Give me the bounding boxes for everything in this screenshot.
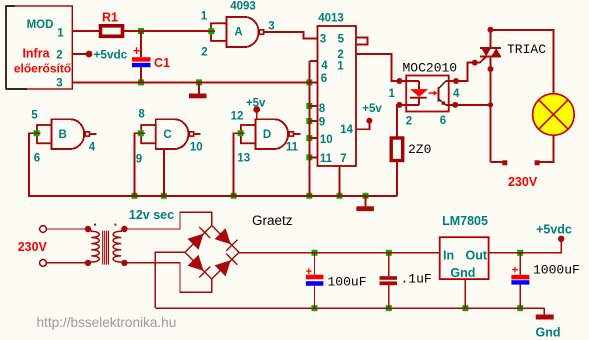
svg-text:D: D (263, 129, 271, 141)
node C2 100uF top (312, 250, 318, 256)
wire LM7805 Gnd to rail (464, 279, 466, 308)
wire R1 to gate A input (124, 30, 209, 32)
triac Q1 (480, 42, 546, 57)
wire MOC pin2 to R-220 (397, 105, 406, 137)
svg-text:4: 4 (89, 141, 96, 153)
svg-text:C: C (163, 129, 171, 141)
capacitor 100uF (306, 253, 367, 308)
wire gate C bottom to ground rail (163, 149, 165, 196)
terminal pad right (535, 160, 540, 165)
wire LM7805 Out to +5vdc (489, 242, 562, 253)
terminal pad left (491, 161, 503, 163)
node MOC pin6 dot (452, 102, 458, 108)
ground symbol top (189, 82, 207, 98)
svg-text:+: + (306, 266, 312, 278)
svg-text:2: 2 (56, 50, 62, 62)
svg-text:230V: 230V (18, 240, 48, 254)
bridge rectifier Graetz (185, 226, 239, 279)
wire 4013 pin2 to MOC pin1 (356, 54, 406, 81)
NAND gate C (136, 109, 203, 166)
bus wire 4013 left pins (308, 61, 310, 196)
svg-text:3: 3 (56, 78, 62, 90)
bottom ground rail (155, 307, 544, 309)
svg-text:A: A (234, 27, 242, 39)
capacitor 1000uF (511, 253, 579, 308)
lamp 230V (533, 94, 575, 136)
terminal 230V input bottom (40, 260, 47, 267)
regulator LM7805 (440, 214, 489, 280)
svg-text:.1uF: .1uF (401, 272, 432, 287)
svg-text:1: 1 (337, 61, 344, 73)
node MOC pin1 dot (397, 78, 403, 84)
svg-text:C1: C1 (154, 56, 170, 70)
transformer T1 (85, 224, 128, 266)
svg-text:5: 5 (31, 110, 38, 122)
diode D2 top-right (215, 228, 231, 244)
wire gate B input to ground rail (29, 133, 135, 196)
svg-text:6: 6 (440, 115, 446, 127)
node C1/rail junction (138, 79, 144, 85)
wire bus to pin9 (309, 120, 317, 122)
node C2 100uF bottom (312, 305, 318, 311)
svg-text:Infra: Infra (22, 47, 50, 61)
node bus/rail pin6 (306, 79, 312, 85)
power +5vdc dot (558, 236, 564, 242)
svg-text:100uF: 100uF (328, 275, 367, 290)
svg-text:4093: 4093 (230, 1, 256, 13)
phototransistor (438, 87, 440, 102)
svg-text:1: 1 (57, 28, 64, 40)
diode D4 bottom-right (215, 260, 231, 276)
node ground junction (196, 79, 202, 85)
node rail C pin9 (132, 193, 138, 199)
ground symbol mid (356, 196, 374, 211)
svg-text:14: 14 (340, 124, 353, 136)
svg-text:Gnd: Gnd (536, 326, 561, 340)
op-gate NAND A (4093) (201, 11, 275, 59)
node gate B input (34, 130, 40, 136)
svg-text:+5vdc: +5vdc (94, 48, 128, 62)
svg-text:2: 2 (201, 47, 207, 59)
svg-text:8: 8 (319, 103, 326, 115)
power +5v at gate D (246, 98, 266, 120)
svg-text:10: 10 (320, 134, 333, 146)
svg-text:12v sec: 12v sec (129, 208, 174, 222)
svg-text:9: 9 (136, 154, 142, 166)
ground symbol bottom right (536, 308, 561, 339)
capacitor C1 (132, 44, 170, 70)
wire through gate C input node (136, 132, 145, 134)
svg-text:+: + (512, 265, 518, 277)
node LM7805 gnd rail (462, 305, 468, 311)
wire 4013 pin4 branch (309, 60, 317, 62)
NAND gate B (31, 110, 96, 165)
wire gate D input to ground rail (234, 133, 241, 196)
node bus pin8 (306, 103, 312, 109)
svg-text:+5v: +5v (362, 103, 382, 115)
wire through gate A input node (206, 30, 215, 32)
optocoupler U-MOC2010 (388, 61, 460, 128)
node junction R1/C1 (138, 28, 144, 34)
svg-text:Gnd: Gnd (450, 266, 475, 280)
wire lamp bottom (540, 135, 554, 162)
node below triac dot (488, 66, 494, 72)
wire C1 bottom lead (140, 67, 142, 82)
svg-text:B: B (58, 129, 66, 141)
wire input top to transformer (47, 228, 89, 230)
resistor R1 (101, 11, 123, 37)
node C4 1000uF bottom (517, 305, 523, 311)
IC 4013 (318, 13, 357, 167)
svg-text:TRIAC: TRIAC (507, 42, 546, 57)
MOD infra preamp box U-MOD (6, 6, 72, 90)
node rail ground (363, 193, 369, 199)
wire through gate B input node (32, 132, 41, 134)
svg-text:MOD: MOD (27, 19, 54, 31)
wire 4013 pin5 loop (356, 38, 368, 45)
capacitor .1uF (380, 253, 432, 308)
ground rail under gates (29, 195, 397, 197)
svg-text:2Z0: 2Z0 (408, 142, 431, 157)
svg-text:12: 12 (231, 111, 244, 123)
diode D3 bottom-left (188, 255, 204, 271)
wire MOD pin3 ground rail to 4013 pin6 (73, 81, 318, 83)
svg-text:11: 11 (286, 142, 299, 154)
node bus pin9 (306, 118, 312, 124)
svg-text:LM7805: LM7805 (442, 214, 488, 228)
svg-text:9: 9 (319, 116, 325, 128)
resistor 2Z0 (391, 138, 431, 161)
wire triac MT2 top (490, 30, 492, 48)
svg-text:MOC2010: MOC2010 (403, 61, 458, 76)
svg-text:4013: 4013 (318, 13, 344, 25)
svg-text:3: 3 (320, 34, 326, 46)
svg-text:11: 11 (320, 153, 333, 165)
wire MOD pin1 to R1 (73, 30, 100, 32)
svg-text:2: 2 (337, 49, 343, 61)
svg-text:R1: R1 (102, 11, 118, 25)
wire 4013 pin7 to rail (339, 166, 341, 196)
wire bridge minus to bottom rail (155, 252, 185, 308)
wire top to lamp (491, 30, 554, 94)
svg-text:1: 1 (201, 11, 208, 23)
svg-text:13: 13 (237, 153, 250, 165)
svg-text:előerősítő: előerősítő (14, 62, 71, 76)
svg-text:5: 5 (338, 33, 345, 45)
svg-text:1: 1 (388, 88, 395, 100)
svg-text:4: 4 (453, 88, 460, 100)
svg-text:10: 10 (190, 142, 203, 154)
node out junction C4 top (517, 250, 523, 256)
svg-text:230V: 230V (508, 175, 538, 189)
wire MOC pin6 to triac MT1 (449, 104, 491, 106)
node gate A input (208, 28, 214, 34)
wire bus to pin11 (309, 156, 317, 158)
node MOC pin2 dot (397, 102, 403, 108)
terminal 230V input top (40, 226, 47, 233)
svg-text:8: 8 (138, 109, 145, 121)
node +5vdc dot (86, 51, 93, 58)
svg-text:http://bsselektronika.hu: http://bsselektronika.hu (37, 315, 177, 330)
node rail C bottom (161, 193, 167, 199)
node triac top dot (488, 27, 494, 33)
svg-text:6: 6 (34, 153, 40, 165)
wire transformer bottom to bridge bottom (124, 263, 211, 292)
wire through gate D input node (236, 132, 245, 134)
svg-text:1000uF: 1000uF (533, 263, 580, 278)
wire bus to pin8 (309, 105, 317, 107)
wire bus to pin10 (309, 137, 317, 139)
svg-text:4: 4 (321, 60, 328, 72)
wire bridge plus rail to LM7805 In (239, 252, 440, 254)
node C3 .1uF top (386, 250, 392, 256)
node rail D (231, 193, 237, 199)
wire MOC pin4 to triac gate (449, 57, 486, 81)
svg-text:6: 6 (321, 73, 327, 85)
wire R-220 to ground rail (396, 162, 398, 196)
node MOC pin4 dot (453, 78, 459, 84)
node bus pin11 (306, 154, 312, 160)
LED inside (410, 89, 428, 97)
svg-text:2: 2 (406, 116, 412, 128)
svg-text:Out: Out (466, 249, 488, 263)
node bus pin10 (306, 135, 312, 141)
node triac MT1 junction (488, 102, 493, 107)
wire transformer top to bridge top (124, 212, 211, 229)
svg-text:+: + (133, 44, 140, 58)
node rail bus (306, 193, 312, 199)
node gate wire dot (472, 60, 478, 66)
wire triac MT1 down (490, 56, 492, 161)
diode D1 top-left (188, 234, 204, 250)
wire C1 top lead (140, 31, 142, 57)
wire gate A output to 4013 pin3 (264, 32, 318, 39)
svg-text:7: 7 (340, 153, 346, 165)
NAND gate D (231, 111, 301, 165)
node gate C input (138, 130, 144, 136)
svg-text:3: 3 (268, 21, 274, 33)
node C3 .1uF bottom (386, 305, 392, 311)
wire MOD pin2 +5vdc stub (73, 53, 90, 55)
arrow (429, 92, 435, 94)
svg-text:In: In (443, 249, 454, 263)
svg-text:+5vdc: +5vdc (536, 223, 572, 237)
node gate D input (238, 130, 244, 136)
power +5v at 4013 pin14 (356, 103, 382, 129)
node rail 4013 pin7 (337, 193, 343, 199)
wire input bottom to transformer (47, 262, 89, 264)
wire gate C input pin9 to ground rail (135, 133, 141, 196)
svg-text:Graetz: Graetz (252, 213, 293, 228)
